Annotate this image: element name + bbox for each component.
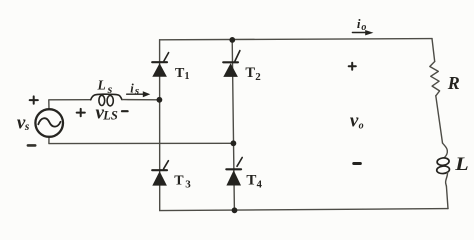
svg-text:s: s (24, 121, 30, 133)
svg-text:L: L (454, 155, 469, 175)
label + at source top (30, 96, 38, 103)
current arrow is (127, 91, 151, 97)
node: bottom rail / T4 junction (232, 207, 238, 213)
thyristor T3 (152, 161, 168, 186)
thyristor T2 (223, 51, 240, 77)
svg-text:s: s (107, 82, 113, 96)
svg-text:3: 3 (185, 178, 191, 190)
wire: left bridge leg (T1/T3 rail) (159, 40, 161, 211)
svg-text:4: 4 (257, 180, 263, 191)
wire: load branch lower segment (446, 186, 448, 209)
current arrow io (352, 30, 373, 35)
svg-text:i: i (130, 81, 134, 95)
label - at source bottom (28, 144, 35, 147)
label + of vLS (77, 109, 85, 116)
label - of vLS (122, 110, 128, 112)
svg-text:T: T (174, 173, 184, 188)
wire: right bridge leg (T2/T4 rail) (232, 40, 234, 211)
wire: bottom DC- rail (160, 209, 448, 211)
svg-text:o: o (361, 22, 366, 33)
svg-text:s: s (134, 85, 139, 97)
resistor R zigzag (430, 62, 440, 96)
svg-text:v: v (350, 111, 359, 132)
svg-text:R: R (447, 73, 460, 93)
label - of vo (354, 162, 361, 165)
wire: load branch upper segment (432, 39, 435, 62)
svg-text:i: i (357, 16, 361, 31)
svg-text:1: 1 (185, 71, 190, 82)
wire: source top lead to bridge (49, 100, 91, 110)
node: top rail / T2 junction (229, 37, 235, 43)
thyristor T1 (152, 53, 168, 77)
AC source vs circle (35, 109, 63, 137)
svg-text:T: T (245, 65, 255, 81)
svg-text:T: T (246, 173, 256, 189)
inductor L coil loops (436, 143, 450, 186)
node: source-bottom / right leg midpoint junction (231, 140, 237, 146)
wire: load branch middle segment (436, 96, 443, 143)
wire: top DC+ rail (160, 39, 432, 40)
svg-text:o: o (359, 120, 364, 131)
label L (454, 155, 469, 175)
inductor Ls arch (91, 94, 122, 100)
wire: Ls to left leg midpoint (123, 99, 160, 101)
svg-text:T: T (175, 66, 185, 81)
wire: source bottom lead to right leg midpoint (49, 137, 233, 144)
svg-text:2: 2 (255, 71, 261, 83)
inductor Ls loops (99, 95, 113, 106)
thyristor T4 (226, 158, 242, 186)
node: source-top / left leg midpoint junction (157, 97, 163, 103)
label + of vo (349, 63, 356, 70)
sine wave inside source (38, 118, 60, 126)
svg-text:LS: LS (102, 108, 118, 122)
svg-text:L: L (97, 78, 106, 93)
